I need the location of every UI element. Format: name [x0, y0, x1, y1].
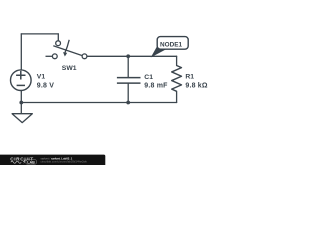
capacitor C1 — [117, 78, 141, 84]
svg-text:C1: C1 — [144, 74, 153, 81]
svg-text:SW1: SW1 — [62, 65, 77, 72]
watermark logo LAB box — [26, 160, 36, 164]
svg-text:V1: V1 — [37, 74, 46, 81]
svg-text:NODE1: NODE1 — [160, 41, 182, 48]
svg-text:LAB: LAB — [27, 160, 35, 164]
wire switch common to node — [87, 55, 177, 57]
node NODE1 flag box — [157, 37, 188, 50]
wire V1 bottom lead — [20, 91, 22, 114]
svg-text:R1: R1 — [185, 74, 194, 81]
node NODE1 flag tail — [152, 47, 165, 57]
wire C1 top lead — [127, 56, 129, 77]
wire C1 bottom lead — [127, 83, 129, 102]
switch SW1 — [46, 40, 87, 59]
junction C1 bottom — [126, 101, 130, 105]
watermark logo squiggle — [11, 161, 21, 163]
voltage source V1 — [10, 70, 31, 91]
svg-text:circuitlab.com/c/xxxxx/lab03b3: circuitlab.com/c/xxxxx/lab03b3/4he2wk — [41, 160, 88, 164]
junction ground rail — [19, 101, 23, 105]
wire R1 bottom lead — [176, 91, 178, 102]
wire R1 top lead — [176, 56, 178, 65]
svg-text:9.8 mF: 9.8 mF — [144, 83, 168, 90]
junction C1 top — [126, 54, 130, 58]
svg-text:9.8 kΩ: 9.8 kΩ — [185, 82, 207, 89]
wire V1 top lead — [20, 34, 22, 70]
wire bottom rail — [21, 102, 176, 104]
watermark bar — [0, 155, 105, 167]
ground — [12, 114, 32, 123]
svg-text:9.8 V: 9.8 V — [37, 83, 54, 90]
watermark logo bolt — [23, 160, 25, 164]
wire top horizontal — [21, 33, 58, 35]
resistor R1 — [172, 66, 182, 92]
wire down to switch throw — [57, 34, 59, 41]
